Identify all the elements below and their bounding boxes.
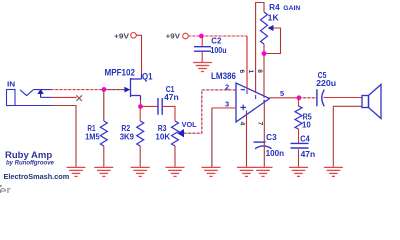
wire: pin 3 to ground	[212, 107, 236, 109]
ground G5 (C2)	[193, 63, 212, 72]
capacitor C3 100n	[254, 142, 272, 149]
capacitor C4 47n	[291, 143, 309, 148]
ground G1 (jack sleeve)	[67, 167, 86, 176]
wire: R2 to ground	[139, 146, 141, 167]
wire: tip line striped to junction	[51, 89, 104, 91]
node junction J2 (source / R2 / C1)	[138, 104, 143, 109]
input jack tip contact arrow	[37, 89, 43, 98]
svg-text:+9V: +9V	[114, 31, 130, 40]
svg-text:5: 5	[280, 89, 284, 98]
U1 pin stubs	[247, 90, 265, 115]
wire: J2 down to R2	[139, 107, 141, 122]
svg-text:3: 3	[225, 99, 229, 108]
potentiometer R3 10K	[172, 121, 179, 146]
wire: C3 to ground	[263, 143, 265, 167]
svg-text:by Runoffgroove: by Runoffgroove	[6, 160, 55, 166]
svg-text:4: 4	[238, 122, 245, 126]
ground G6 (pin 3)	[202, 167, 221, 176]
wire: J5 to C5	[299, 97, 317, 99]
svg-text:100n: 100n	[266, 149, 285, 158]
resistor R1	[100, 121, 107, 146]
input jack J-IN body	[7, 90, 16, 106]
svg-text:7: 7	[256, 122, 263, 126]
svg-text:R4: R4	[269, 3, 280, 12]
svg-text:ElectroSmash.com: ElectroSmash.com	[4, 172, 70, 181]
U1 pin 8 lead	[263, 54, 265, 99]
plus sign pin3	[240, 105, 246, 111]
svg-text:1: 1	[247, 69, 254, 73]
ground G2 (R1)	[94, 167, 113, 176]
wire: C4 to ground	[298, 149, 300, 166]
svg-text:47n: 47n	[301, 150, 316, 159]
wire: +9V rail to pin 6	[188, 35, 247, 37]
op-amp U1 LM386	[236, 83, 270, 122]
U1 pin 6 lead	[246, 36, 248, 90]
wire: C5 to speaker	[324, 97, 363, 99]
svg-text:6: 6	[238, 69, 245, 73]
U1 pin 4 lead	[246, 114, 248, 167]
wire: tip stem red to open end	[52, 96, 77, 98]
svg-text:GAIN: GAIN	[283, 5, 300, 12]
node junction J4 (R4 / pin 8)	[262, 51, 267, 56]
Q1 gate arrow	[124, 87, 130, 93]
svg-text:2: 2	[225, 83, 229, 92]
svg-text:1M5: 1M5	[85, 132, 100, 141]
svg-text:C3: C3	[266, 133, 277, 142]
speaker LS1	[362, 85, 381, 119]
svg-text:220u: 220u	[316, 79, 336, 88]
wire: R4 bottom to J4	[263, 44, 265, 54]
svg-text:10K: 10K	[155, 132, 170, 141]
capacitor C5 220u	[317, 89, 324, 106]
svg-text:C4: C4	[300, 135, 310, 144]
U1 pin 1 lead	[256, 3, 264, 94]
node junction J5 (pin5 / R5 / C5)	[297, 95, 302, 100]
transistor Q1 MPF102 JFET	[131, 74, 142, 100]
resistor R5	[295, 106, 302, 129]
wire: R3 wiper to pin 2 (striped)	[184, 90, 236, 133]
wire: tip line from switch (blue)	[33, 89, 51, 91]
wire: sleeve red to ground	[52, 106, 77, 167]
wire: J5 down to R5	[298, 98, 300, 106]
ground G9 (C4)	[289, 167, 308, 176]
svg-text:10: 10	[302, 120, 311, 129]
svg-text:1K: 1K	[268, 13, 279, 22]
wire: sleeve blue	[15, 105, 52, 107]
node junction J3 (+9V / C2)	[199, 34, 204, 39]
svg-text:VOL: VOL	[182, 120, 198, 129]
potentiometer R4 1K	[261, 12, 268, 44]
ground G7 (pin 4)	[237, 167, 256, 176]
svg-text:LM386: LM386	[211, 71, 236, 81]
wire: C2 to ground	[201, 52, 203, 62]
wire: pin 5 output	[270, 97, 300, 99]
U1 pin 7 lead	[263, 104, 265, 143]
input jack switch contact (V)	[20, 90, 33, 96]
svg-text:Q1: Q1	[142, 72, 153, 82]
wire: J1 down to R1	[103, 90, 105, 121]
svg-text:+9V: +9V	[166, 31, 181, 40]
wire: C1 to R3 top	[163, 106, 175, 121]
svg-text:47n: 47n	[164, 93, 179, 102]
wire: tip line junction to JFET gate	[104, 89, 125, 91]
R4 wiper arrow	[268, 25, 274, 31]
R3 wiper arrow	[177, 129, 184, 137]
svg-text:8: 8	[256, 69, 263, 73]
ground G8 (C3)	[254, 167, 273, 176]
wire: +9V to Q1 drain	[136, 35, 141, 74]
node junction J1 (gate / R1)	[102, 87, 107, 92]
svg-text:IN: IN	[7, 79, 15, 88]
capacitor C1 47n	[158, 98, 162, 115]
capacitor C2 100u	[194, 47, 211, 52]
svg-text:C2: C2	[211, 36, 222, 45]
open end X mark	[76, 95, 82, 101]
resistor R2	[137, 121, 144, 146]
svg-text:100u: 100u	[210, 46, 226, 55]
wire: J2 to C1	[141, 105, 158, 107]
svg-text:MPF102: MPF102	[105, 67, 136, 77]
wire: R4 wiper loop to J4	[266, 28, 281, 54]
wire: R1 to ground	[103, 146, 105, 167]
ground G4 (R3)	[166, 167, 185, 176]
wire: Q1 source to J2	[140, 100, 142, 107]
wire: R5 to C4	[298, 129, 300, 144]
wire: speaker return to ground	[333, 106, 362, 167]
wire: tip stem blue	[41, 96, 52, 98]
wire: J3 down to C2	[201, 36, 203, 46]
ground G10 (speaker)	[324, 167, 343, 176]
wire: R3 bottom to ground	[174, 146, 176, 167]
svg-text:3K9: 3K9	[120, 132, 135, 141]
minus sign pin2	[241, 89, 245, 91]
ground G3 (R2)	[131, 167, 150, 176]
